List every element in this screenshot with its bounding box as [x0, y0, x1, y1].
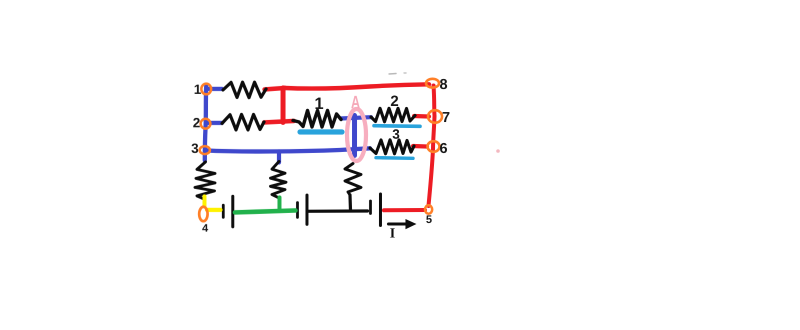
label node 1: [195, 85, 201, 94]
label node 3: [191, 143, 198, 153]
underline (cyan) resistor 2: [374, 124, 420, 128]
label node 6: [440, 143, 447, 153]
stray gray smudge near top: [389, 72, 396, 75]
label resistor 3: [393, 129, 400, 139]
wire: red link battery3 to node5: [384, 208, 425, 212]
label I: [390, 228, 395, 237]
node 8: [426, 79, 439, 88]
wire: red row2 link to resistor 1: [264, 121, 294, 123]
node 7: [428, 110, 442, 123]
label A (pink): [351, 96, 360, 108]
wire: red link resistor3 to node6: [413, 144, 427, 149]
label node 7: [443, 112, 450, 122]
wire: red right bus node8 to node5: [428, 86, 434, 207]
wire: green bottom link B1 to B2: [235, 210, 296, 212]
wire: red row1 link from resistor: [265, 88, 286, 90]
label resistor 2: [391, 96, 398, 106]
wire: blue ammeter branch vertical bar: [352, 115, 357, 155]
label node 5: [426, 215, 431, 223]
battery B2 short plate: [296, 203, 299, 218]
node 6: [428, 141, 440, 152]
wire: red vertical T bar: [281, 88, 286, 122]
underline (cyan) resistor 3: [376, 156, 413, 160]
wire: red link resistor2 to node7: [414, 114, 429, 119]
node 3: [200, 146, 210, 154]
wire: blue stub node2: [206, 121, 222, 125]
battery B1 long plate: [231, 196, 234, 227]
battery B2 long plate: [305, 195, 308, 224]
resistor R-b (node2 row): [222, 114, 264, 130]
wire: red top bus to node 8: [284, 84, 429, 88]
resistor 1: [293, 110, 341, 127]
resistor 2: [371, 108, 415, 122]
wire: blue row3 bus node3 to resistor3: [205, 148, 370, 151]
wire: blue middle segment resistor1 to resistor2: [341, 117, 371, 118]
battery B1 short plate: [222, 205, 225, 217]
battery B3 long plate: [379, 194, 382, 225]
underline (cyan) resistor 1: [300, 129, 342, 134]
wire: blue stub node1: [206, 87, 222, 91]
resistor VR2 (middle vertical): [270, 161, 286, 198]
stray pink dot: [496, 149, 500, 153]
current arrow I: [388, 219, 416, 229]
wire: blue stub down to resistor VR2: [277, 151, 281, 162]
ammeter loop A (pink ellipse): [347, 109, 366, 161]
wire: yellow link node4 to B1: [207, 208, 220, 212]
wire: green stub up to VR2: [277, 197, 281, 211]
wire: black stub VR3 to bottom bus: [348, 195, 352, 210]
node 5: [425, 205, 432, 213]
label node 8: [440, 79, 447, 89]
resistor VR3 (right vertical): [345, 163, 361, 195]
stray gray dot: [404, 72, 406, 74]
resistor 3: [370, 140, 414, 154]
resistor VR1 (below node3): [195, 162, 215, 199]
battery B3 short plate: [369, 201, 372, 214]
label node 2: [193, 118, 200, 127]
label node 4: [202, 224, 208, 232]
node 2: [201, 119, 211, 129]
wire: blue left vertical bus node1-node3: [205, 86, 206, 160]
wire: black bottom bus B2 to B3: [308, 209, 367, 213]
wire: yellow stub VR1 to node4: [202, 196, 206, 206]
node 4: [199, 207, 207, 221]
node 1: [201, 84, 211, 95]
resistor R-a (node1 row): [223, 82, 266, 97]
label resistor 1: [315, 98, 323, 109]
